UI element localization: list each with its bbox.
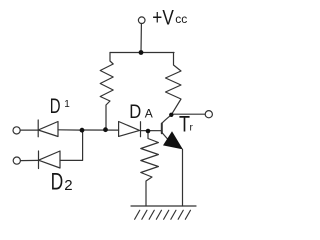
svg-text:T: T: [179, 112, 190, 137]
svg-text:+V: +V: [152, 7, 174, 30]
svg-text:D: D: [129, 102, 141, 123]
svg-text:A: A: [145, 107, 153, 121]
svg-text:D: D: [50, 95, 61, 118]
svg-text:1: 1: [64, 99, 70, 110]
svg-text:r: r: [190, 123, 194, 134]
svg-text:2: 2: [64, 177, 72, 194]
svg-text:cc: cc: [175, 12, 187, 26]
svg-text:D: D: [51, 169, 64, 196]
